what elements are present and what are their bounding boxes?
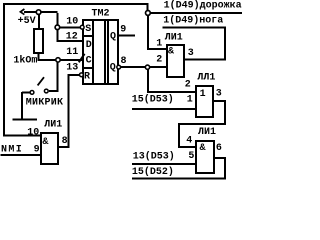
wire drop to node D bbox=[147, 5, 149, 11]
BR LI1 box right edge bbox=[213, 140, 215, 174]
wire pin 2 top gate bbox=[150, 66, 167, 68]
TM2 divider left field bbox=[92, 19, 94, 84]
wire top loop horizontal bbox=[3, 3, 149, 5]
svg-text:1(D49)дорожка: 1(D49)дорожка bbox=[164, 0, 242, 12]
svg-text:13(D53): 13(D53) bbox=[133, 150, 175, 162]
svg-text:Q: Q bbox=[110, 62, 116, 73]
wire down to pin 4 bbox=[178, 123, 180, 148]
BL LI1 box left edge bbox=[40, 132, 42, 165]
TM2 divider mid A bbox=[104, 19, 106, 84]
svg-text:ТМ2: ТМ2 bbox=[92, 9, 110, 20]
switch left contact bbox=[30, 91, 34, 95]
svg-text:12: 12 bbox=[66, 31, 78, 42]
svg-text:15(D52): 15(D52) bbox=[132, 166, 174, 178]
LL1 box bottom edge bbox=[195, 116, 214, 118]
wire pin 4 bbox=[180, 146, 195, 148]
wire left loop vertical bbox=[3, 3, 5, 136]
svg-text:8: 8 bbox=[62, 136, 68, 147]
node C bbox=[56, 58, 60, 62]
resistor bottom edge bbox=[33, 52, 44, 54]
svg-text:1kOm: 1kOm bbox=[13, 55, 37, 67]
svg-text:&: & bbox=[42, 137, 48, 148]
svg-text:D: D bbox=[86, 40, 92, 51]
switch lever bbox=[38, 77, 44, 85]
wire to LL1 pin 2 bbox=[147, 91, 196, 93]
node D bbox=[146, 11, 151, 16]
resistor right edge bbox=[42, 28, 44, 54]
wire noga horizontal bbox=[162, 27, 226, 29]
wire arrow to node A bbox=[24, 11, 37, 13]
wire resistor bottom lead bbox=[38, 54, 40, 60]
wire LL1 out down bbox=[224, 100, 226, 125]
BR LI1 box bottom edge bbox=[195, 172, 215, 174]
wire pin 5 13(D53) bbox=[132, 163, 195, 165]
wire right contact to riser bbox=[49, 90, 59, 92]
wire pin 1 top gate bbox=[147, 48, 167, 50]
svg-text:3: 3 bbox=[216, 88, 222, 99]
node A bbox=[36, 10, 41, 15]
wire pin 8 to node E bbox=[121, 66, 145, 68]
wire S input bbox=[60, 27, 80, 29]
svg-text:МИКРИК: МИКРИК bbox=[26, 97, 64, 108]
wire pin 9 stub bbox=[119, 35, 136, 37]
top LI1 box bottom edge bbox=[166, 76, 185, 78]
wire node B down bbox=[56, 30, 58, 42]
svg-text:1: 1 bbox=[200, 89, 206, 100]
wire output 8 bbox=[59, 146, 70, 148]
resistor top edge bbox=[33, 28, 44, 30]
svg-text:15(D53): 15(D53) bbox=[132, 93, 174, 105]
wire 15(D53) to LL1 pin 1 bbox=[132, 108, 196, 110]
S inversion bubble bbox=[80, 25, 84, 29]
wire D input bbox=[56, 40, 82, 42]
wire dorozhka bbox=[150, 12, 242, 14]
TM2 box top edge bbox=[82, 19, 119, 21]
BL LI1 box bottom edge bbox=[40, 163, 59, 165]
switch right contact bbox=[44, 89, 48, 93]
svg-text:ЛИ1: ЛИ1 bbox=[165, 32, 183, 43]
Q inverted bubble bbox=[117, 65, 121, 69]
svg-text:NMI: NMI bbox=[1, 144, 23, 155]
TM2 separator C/R bbox=[82, 67, 92, 69]
svg-text:ЛЛ1: ЛЛ1 bbox=[197, 73, 215, 84]
top LI1 box right edge bbox=[183, 44, 185, 78]
wire node A right bbox=[41, 11, 58, 13]
svg-text:&: & bbox=[200, 143, 206, 154]
arrow +5V head bbox=[20, 9, 24, 15]
top LI1 box left edge bbox=[166, 44, 168, 78]
wire down to node B bbox=[57, 13, 59, 25]
svg-text:10: 10 bbox=[27, 128, 39, 139]
TM2 box bottom edge bbox=[82, 83, 119, 85]
svg-text:+5V: +5V bbox=[18, 16, 36, 27]
wire output 3 top gate bbox=[185, 59, 226, 61]
svg-text:1(D49)нога: 1(D49)нога bbox=[163, 15, 223, 27]
wire pin10 from left loop bbox=[3, 135, 41, 137]
wire down to ground bar bbox=[21, 92, 23, 119]
resistor left edge bbox=[33, 28, 35, 54]
svg-text:9: 9 bbox=[34, 144, 40, 155]
node B bbox=[55, 25, 60, 30]
wire node A down to resistor bbox=[38, 14, 40, 29]
svg-text:9: 9 bbox=[120, 24, 126, 35]
node E bbox=[145, 65, 149, 69]
svg-text:5: 5 bbox=[188, 151, 194, 162]
svg-text:&: & bbox=[168, 46, 174, 57]
wire 15(D52) bbox=[132, 178, 226, 180]
TM2 box left edge bbox=[82, 19, 84, 84]
wire R input bbox=[68, 74, 80, 76]
svg-text:Q: Q bbox=[110, 32, 116, 43]
svg-text:2: 2 bbox=[185, 80, 191, 91]
TM2 box right edge bbox=[117, 19, 119, 84]
wire node E down bbox=[147, 70, 149, 93]
svg-text:ЛИ1: ЛИ1 bbox=[198, 127, 216, 138]
wire output 6 bbox=[215, 157, 226, 159]
wire noga vertical bbox=[224, 27, 226, 59]
BR LI1 box top edge bbox=[195, 140, 215, 142]
wire LL1 out left bbox=[178, 123, 226, 125]
BL LI1 box right edge bbox=[57, 132, 59, 165]
svg-text:1: 1 bbox=[156, 39, 162, 50]
wire node C down to switch bbox=[57, 62, 59, 90]
wire out6 down bbox=[224, 157, 226, 180]
svg-text:11: 11 bbox=[66, 47, 78, 58]
svg-text:S: S bbox=[85, 24, 91, 35]
svg-text:2: 2 bbox=[156, 55, 162, 66]
svg-text:13: 13 bbox=[66, 63, 78, 74]
BL LI1 box top edge bbox=[40, 132, 59, 134]
TM2 divider mid B bbox=[107, 19, 109, 84]
svg-text:10: 10 bbox=[66, 17, 78, 28]
LL1 box left edge bbox=[195, 85, 197, 118]
wire LL1 output 3 bbox=[214, 100, 226, 102]
wire left contact left bbox=[22, 92, 30, 94]
ground bar bbox=[12, 119, 37, 121]
svg-text:4: 4 bbox=[186, 136, 192, 147]
top LI1 box top edge bbox=[166, 44, 185, 46]
BR LI1 box left edge bbox=[195, 140, 197, 174]
LL1 box top edge bbox=[195, 85, 214, 87]
TM2 separator S/D bbox=[82, 35, 92, 37]
wire C input bbox=[38, 59, 83, 61]
R feedback vertical bbox=[68, 74, 70, 148]
svg-text:3: 3 bbox=[188, 48, 194, 59]
wire node D down to pin1 bbox=[147, 15, 149, 50]
svg-text:1: 1 bbox=[187, 95, 193, 106]
svg-text:6: 6 bbox=[216, 143, 222, 154]
svg-text:C: C bbox=[86, 56, 92, 67]
R inversion bubble bbox=[80, 73, 84, 77]
clock slash bbox=[79, 54, 85, 63]
svg-text:R: R bbox=[84, 71, 90, 82]
svg-text:ЛИ1: ЛИ1 bbox=[44, 120, 62, 131]
wire NMI bbox=[1, 154, 40, 156]
svg-text:8: 8 bbox=[121, 56, 127, 67]
LL1 box right edge bbox=[212, 85, 214, 118]
